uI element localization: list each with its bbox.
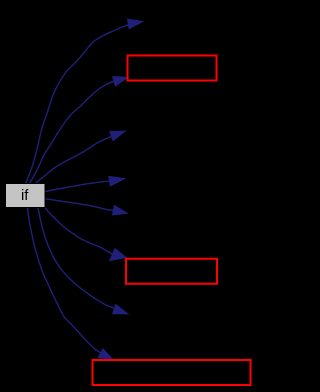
wire edge F (if to box2) [45,208,113,255]
arrowhead edge H (if to box3) [98,349,114,361]
arrowhead edge E (if to hidden node) [112,205,127,215]
wire edge E (if to hidden node) [45,199,114,211]
node box1 (red, truncated label) [128,56,217,81]
node box2 (red, truncated label) [126,259,217,284]
wire edge G (if to hidden node) [38,208,116,309]
wire edge H (if to box3) [28,208,101,353]
arrowhead edge F (if to box2) [110,248,127,260]
wire edge D (if to hidden node) [45,181,112,192]
arrowhead edge B (if to box1) [113,77,129,87]
arrowhead edge A (if to top hidden node) [127,19,143,29]
wire edge A (if to top hidden node) [25,24,129,184]
wire edge B (if to box1) [29,81,114,184]
svg-text:if: if [21,187,29,204]
arrowhead edge G (if to hidden node) [113,304,129,314]
node box3 (red, truncated label) [93,360,251,385]
wire edge C (if to hidden node) [34,136,112,185]
arrowhead edge C (if to hidden node) [110,131,126,141]
node if (grey central node) [6,184,46,208]
arrowhead edge D (if to hidden node) [109,176,125,186]
